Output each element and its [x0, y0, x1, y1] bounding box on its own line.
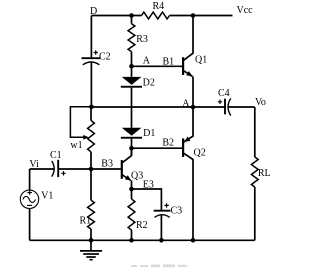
- svg-text:C2: C2: [99, 52, 111, 63]
- svg-text:Vcc: Vcc: [237, 5, 254, 16]
- svg-text:A: A: [143, 56, 151, 67]
- svg-text:w1: w1: [70, 140, 82, 151]
- svg-text:B2: B2: [162, 137, 174, 148]
- svg-text:D1: D1: [143, 128, 155, 139]
- svg-text:Q2: Q2: [194, 147, 206, 158]
- svg-text:C1: C1: [50, 150, 62, 161]
- svg-text:E3: E3: [143, 180, 154, 191]
- svg-text:A: A: [182, 98, 190, 109]
- svg-text:Vo: Vo: [255, 97, 266, 108]
- svg-text:R1: R1: [80, 215, 92, 226]
- svg-text:V1: V1: [41, 190, 53, 201]
- svg-text:Q1: Q1: [195, 55, 207, 66]
- svg-text:C3: C3: [171, 206, 183, 217]
- svg-text:Q3: Q3: [131, 170, 143, 181]
- svg-text:B3: B3: [101, 159, 113, 170]
- svg-text:B1: B1: [163, 57, 175, 68]
- svg-text:Vi: Vi: [29, 159, 39, 170]
- svg-text:D2: D2: [143, 78, 155, 89]
- svg-text:C4: C4: [218, 88, 230, 99]
- svg-text:D: D: [90, 6, 97, 17]
- svg-text:R3: R3: [136, 34, 148, 45]
- svg-text:RL: RL: [258, 168, 271, 179]
- svg-text:R4: R4: [153, 1, 165, 12]
- svg-text:R2: R2: [136, 220, 148, 231]
